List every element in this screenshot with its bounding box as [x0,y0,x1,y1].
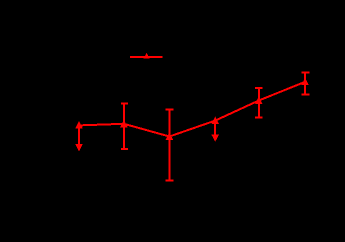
error bar point 1 down-arrow [75,127,82,152]
marker point 5 [255,97,262,104]
legend marker [143,53,149,59]
legend line [130,56,162,58]
marker point 4 [212,117,219,124]
error bar point 4 down-arrow [211,122,219,142]
marker point 1 [75,121,82,128]
error bar point 2 [121,104,128,149]
marker point 2 [120,120,127,127]
data polyline [79,82,305,137]
error bar point 5 [255,88,263,118]
error bar point 3 [166,110,174,181]
marker point 3 [166,132,173,139]
marker point 6 [302,78,309,85]
error bar point 6 [301,72,309,94]
